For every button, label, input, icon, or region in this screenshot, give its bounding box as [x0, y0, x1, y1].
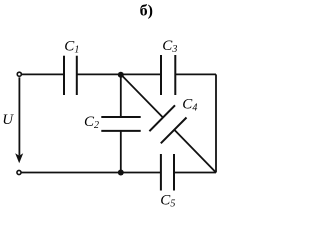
svg-text:C3: C3: [162, 38, 177, 55]
svg-text:C1: C1: [64, 39, 79, 56]
svg-text:C5: C5: [160, 193, 175, 210]
svg-text:C2: C2: [84, 114, 99, 131]
svg-text:C4: C4: [182, 96, 197, 113]
svg-text:U: U: [2, 112, 14, 128]
svg-text:б): б): [140, 2, 153, 19]
